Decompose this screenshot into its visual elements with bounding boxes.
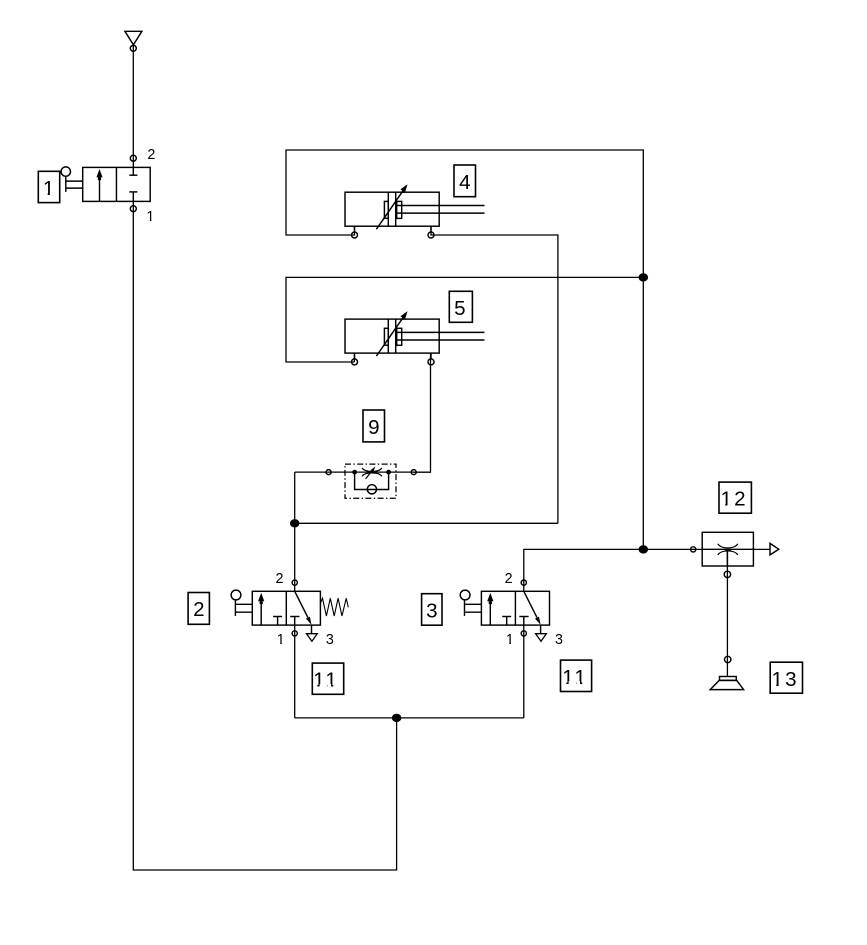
wire horizontal y=718 between valve 2 and valve 3 port 1 [295,717,524,719]
svg-text:1: 1 [277,632,285,648]
label box 11 (right) [561,660,592,691]
svg-text:13: 13 [772,668,799,691]
valve V1 port 1 circle [130,206,136,212]
label box 2 [188,593,209,625]
wire through valve 9 [295,471,431,473]
exhaust stem and triangle port 3 [311,625,313,634]
cylinder 5 (double acting with adjustable cushioning) [345,311,485,365]
wire cylinder 5 right port down to valve 9 right port [414,353,431,472]
divider [285,591,287,625]
svg-text:2: 2 [193,598,204,621]
wire cylinder 4 right port to vertical x=558 down to y=523 [431,226,558,523]
wire valve 12 bottom port down to suction cup [726,550,728,677]
label box 12 [719,482,751,513]
valve V1 body [83,167,151,201]
port circles [326,470,331,475]
through line inside box [702,548,753,550]
cushioning adjust arrow [376,191,403,229]
valve V1 right box blocked port 1 [132,192,134,202]
wire valve 3 port 2 up and right to valve 12 [524,549,770,591]
svg-text:9: 9 [368,416,379,439]
venturi center bar [725,549,731,551]
valve 12 (vacuum generator) [691,532,779,577]
cushion bosses [384,201,388,218]
wire valve 2 port 1 down [294,625,296,718]
throttle arcs [362,468,382,471]
wire from source to valve 1 port 2 [132,45,134,168]
cup trapezoid [710,680,743,689]
valve 9 (one-way flow control valve) [326,464,416,498]
compressed air source port circle [130,45,136,51]
adjust arrow [366,471,372,479]
label box 1 [38,171,59,202]
svg-text:3: 3 [426,600,437,623]
bypass check path [355,472,389,489]
wire valve 9 left to junction at 294.7,523.3 [294,472,296,523]
wire cylinder 5 left port stem [353,353,355,362]
bottom port circle [724,571,730,577]
outlet triangle [770,543,779,555]
junction node main vertical / vacuum line [639,545,649,553]
piston rod [396,205,485,207]
port circles [292,580,297,585]
svg-text:5: 5 [454,297,465,320]
label box 5 [449,291,472,322]
left box blocked port [273,616,282,618]
wire from valve 1 port 1 down, right along bottom, up to junction [133,201,396,870]
valve V2 return spring [320,598,348,616]
node dots [352,470,357,475]
pushbutton actuator [231,590,241,600]
throttle center bar [370,471,374,473]
wire horizontal y=523 [295,522,558,524]
wire junction down to valve 2 port 2 [294,523,296,591]
check valve ball [367,485,376,494]
valve V1 left box flow arrow [99,177,101,202]
svg-text:11: 11 [562,666,588,689]
suction cup 13 [710,656,743,689]
label box 13 [770,662,802,693]
svg-text:1: 1 [43,177,54,200]
wire valve 3 port 1 down [523,625,525,718]
piston lines [387,192,389,226]
neck rectangle [720,677,737,681]
cylinder 4 (double acting with adjustable cushioning) [345,184,485,238]
dash-dot enclosure [345,464,396,498]
wire cylinder 5 loop: junction on main vertical left then down to cyl5 left port [286,277,643,362]
compressed air source triangle [125,31,142,45]
svg-text:12: 12 [720,488,747,511]
label box 4 [454,165,476,197]
valve V1 port 2 circle [130,155,136,161]
svg-text:4: 4 [459,171,470,194]
label box 9 [363,410,385,442]
valve V2 (3/2-way pushbutton valve, spring return) [231,571,334,648]
svg-text:1: 1 [146,209,154,225]
left port circle [691,547,696,552]
junction node supply line y=718 [392,714,402,722]
port circles [352,232,358,238]
svg-text:2: 2 [276,571,284,587]
valve V1 right box blocked port 2 [132,167,134,175]
right box flow diagonal 2 to 3 [295,591,308,617]
junction node cyl5 loop / main vertical [639,273,649,281]
svg-text:3: 3 [326,632,334,648]
valve V1 divider [115,167,117,201]
label box 11 (left) [312,663,343,694]
port stems [354,226,356,232]
top port circle [725,656,731,662]
valve V1 pushbutton actuator [61,167,70,176]
junction node valve 9 line / valve 2 port 2 [290,519,300,527]
svg-text:11: 11 [313,669,339,692]
venturi arcs [718,544,738,548]
valve V1 (2/2-way pushbutton valve) [61,147,155,225]
bottom stem [726,550,728,566]
wire cylinder 4 left port to frame top to main vertical down [286,150,643,549]
label box 3 [422,594,442,626]
valve V3 (3/2-way pushbutton valve) [460,571,563,648]
svg-text:2: 2 [147,147,155,163]
right box blocked port 1 [290,616,299,618]
left box flow arrow [260,601,262,625]
